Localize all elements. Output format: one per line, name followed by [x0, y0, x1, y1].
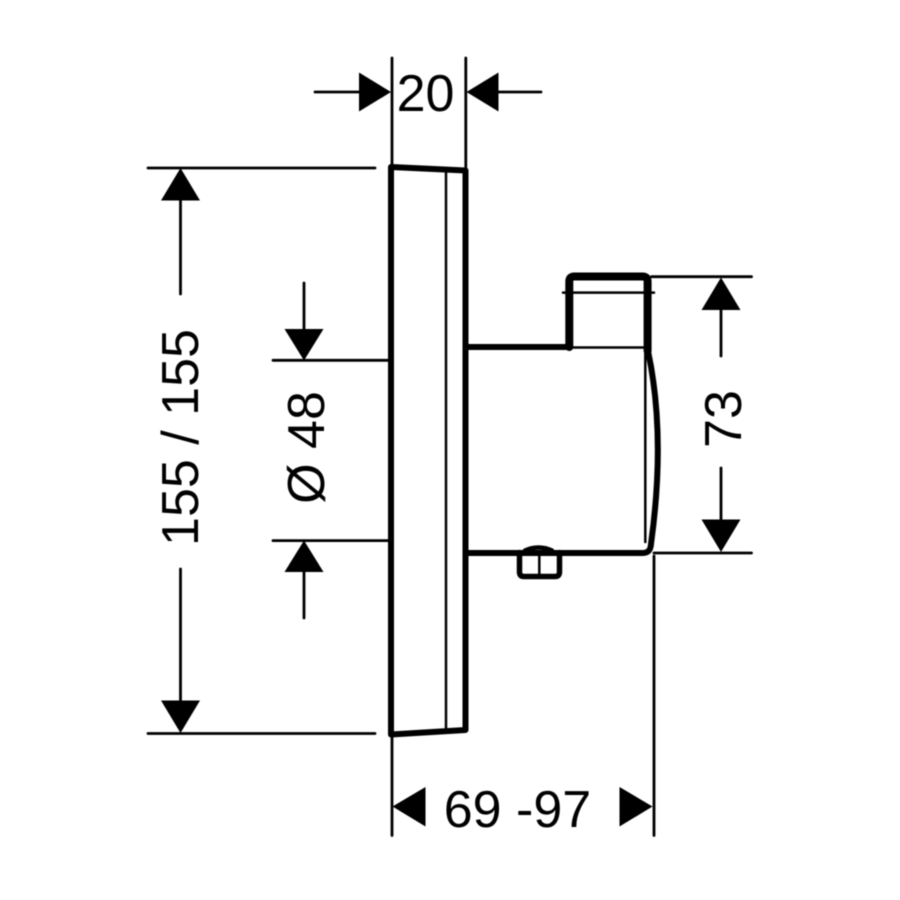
escutcheon plate outline (side view) [391, 167, 466, 735]
safety stop divider [538, 553, 541, 575]
dim 155: lower stub [179, 569, 182, 702]
dim 20: right extension line [464, 58, 467, 168]
dim 155: bottom arrowhead [161, 701, 200, 734]
thermostat handle outline [569, 277, 647, 352]
safety stop block under body [520, 553, 560, 577]
dim 48: bottom arrowhead [285, 541, 324, 573]
dim 73: lower stub [720, 468, 723, 520]
dim 20: left extension line [391, 58, 394, 164]
dim 20: right leader tail [497, 91, 541, 94]
dim 69-97: left extension line [391, 737, 394, 836]
dim 69-97: right extension line [653, 556, 656, 836]
dim 73: top arrowhead [702, 278, 741, 311]
dim 48: top arrowhead [285, 329, 324, 361]
dim 73: top extension line [652, 275, 752, 278]
dim 155: bottom extension line [148, 732, 375, 735]
svg-text:73: 73 [695, 390, 753, 448]
svg-text:20: 20 [397, 65, 455, 123]
dim 20: right arrowhead [467, 73, 499, 112]
handle lip parting line [563, 291, 654, 294]
dim 69-97: right arrowhead [620, 787, 653, 827]
dim 20: left arrowhead [359, 73, 391, 112]
dim 155: top arrowhead [161, 168, 200, 201]
svg-text:155 / 155: 155 / 155 [152, 329, 210, 546]
svg-text:69 -97: 69 -97 [444, 781, 591, 839]
dim 20: left leader tail [315, 91, 360, 94]
valve body top edge [466, 344, 570, 350]
valve body right silhouette line [644, 344, 647, 542]
dim 48: lower boundary line [273, 539, 388, 542]
dim 155: upper stub [179, 199, 182, 294]
dim 48: upper boundary line [273, 359, 388, 362]
dim 48: upper leader tail [303, 283, 306, 330]
dim 69-97: left arrowhead [393, 787, 426, 827]
plate face parting line [445, 171, 448, 730]
valve body bottom edge and right bulge [466, 351, 658, 553]
safety stop top bump [525, 548, 552, 551]
svg-text:Ø 48: Ø 48 [278, 391, 336, 504]
dim 73: upper stub [720, 310, 723, 356]
dim 73: bottom extension line [654, 552, 752, 555]
dim 155: top extension line [148, 167, 375, 170]
dim 73: bottom arrowhead [702, 520, 741, 553]
handle bottom line [572, 346, 644, 349]
dim 48: lower leader tail [303, 571, 306, 618]
